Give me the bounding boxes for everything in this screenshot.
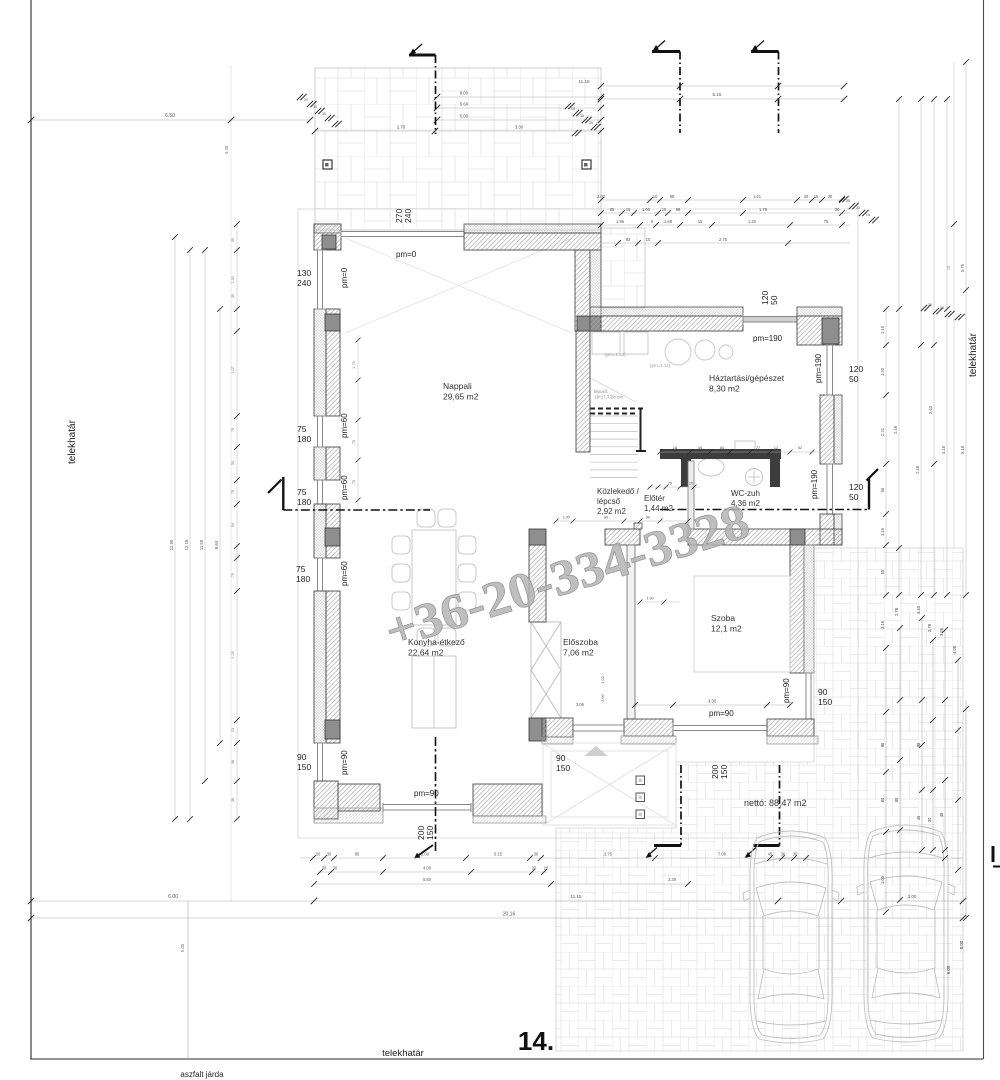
- column middle wall: [790, 529, 805, 545]
- svg-text:1.30: 1.30: [562, 515, 570, 520]
- szoba south pier west: [624, 719, 673, 736]
- kitchen hall wall: [529, 545, 546, 622]
- svg-text:30: 30: [231, 238, 235, 242]
- terrace post right: [582, 160, 591, 169]
- svg-text:98: 98: [916, 742, 921, 747]
- dimension cluster northeast pier: [921, 303, 965, 320]
- wall top-left pier: [314, 224, 341, 250]
- svg-text:10: 10: [662, 207, 667, 212]
- window 120/50 north: [743, 313, 797, 325]
- dimension row wc counter: [658, 446, 821, 455]
- svg-text:30: 30: [313, 105, 317, 109]
- svg-text:1,44 m2: 1,44 m2: [644, 504, 673, 513]
- svg-text:1.30: 1.30: [880, 367, 885, 376]
- svg-text:telekhatár: telekhatár: [382, 1048, 424, 1059]
- door jamb middle wall: [634, 523, 642, 529]
- kitchen hall wall column top: [529, 529, 546, 545]
- svg-text:Közlekedő /: Közlekedő /: [597, 487, 640, 496]
- svg-text:aszfalt járda: aszfalt járda: [180, 1070, 224, 1079]
- label előszoba: [563, 637, 598, 658]
- svg-text:1.78: 1.78: [759, 207, 768, 212]
- label 90/150 porch: [556, 753, 570, 773]
- label 90/150 west: [297, 752, 311, 772]
- dimension row below house y872: [317, 866, 549, 875]
- svg-text:3.30: 3.30: [224, 145, 229, 154]
- svg-text:20: 20: [304, 98, 308, 102]
- svg-text:15: 15: [866, 213, 870, 217]
- svg-text:30: 30: [846, 199, 850, 203]
- dimension cluster terrace top-right: [565, 103, 601, 136]
- svg-text:20: 20: [544, 866, 549, 871]
- west wall pier D: [314, 504, 326, 558]
- dimension line far right 8.00 6.00: [946, 700, 969, 974]
- dimension chains right side upper: [880, 59, 969, 598]
- paved driveway (basket-weave) right: [556, 548, 963, 1051]
- edge marker bottom right: [993, 846, 1000, 867]
- svg-text:49: 49: [698, 446, 702, 450]
- svg-text:75: 75: [231, 573, 235, 577]
- svg-text:2.00: 2.00: [600, 693, 605, 701]
- label szoba: [711, 613, 742, 634]
- svg-text:80: 80: [894, 797, 899, 802]
- svg-text:3.40: 3.40: [916, 605, 921, 614]
- svg-text:2,92 m2: 2,92 m2: [597, 507, 626, 516]
- nappali ceiling diagonals: [345, 238, 572, 333]
- svg-text:150: 150: [556, 763, 570, 773]
- window 90/150 szoba east: [804, 673, 813, 719]
- svg-text:4.00: 4.00: [423, 866, 432, 871]
- svg-text:1.96: 1.96: [616, 219, 625, 224]
- section marker A bottom: [414, 737, 436, 859]
- footing elotér pier: [542, 737, 573, 744]
- east wall segment 2 insulation: [834, 514, 842, 545]
- svg-text:11.59: 11.59: [199, 539, 204, 550]
- dimension top 11.15 and 5.15: [578, 79, 847, 102]
- svg-text:Előszoba: Előszoba: [563, 637, 598, 647]
- dimension row elöszoba: [600, 596, 680, 702]
- svg-text:50: 50: [769, 295, 779, 305]
- svg-text:5.00: 5.00: [460, 114, 469, 119]
- svg-text:pm=90: pm=90: [340, 750, 349, 775]
- dimension top-left 6.50: [28, 113, 313, 123]
- svg-text:10: 10: [646, 237, 651, 242]
- west wall pier B: [314, 309, 326, 416]
- svg-text:75: 75: [231, 428, 235, 432]
- svg-text:30: 30: [580, 114, 584, 118]
- watermark phone number: [378, 492, 755, 659]
- svg-text:pm=90: pm=90: [782, 678, 791, 703]
- svg-text:120: 120: [849, 364, 863, 374]
- svg-text:pm=190: pm=190: [753, 334, 783, 343]
- svg-text:pm=190: pm=190: [810, 469, 819, 499]
- svg-text:54: 54: [231, 523, 235, 527]
- svg-text:75: 75: [352, 440, 356, 444]
- dimension cluster terrace top-left: [297, 94, 342, 127]
- svg-text:1.41: 1.41: [753, 194, 762, 199]
- nappali east wall: [575, 250, 590, 331]
- svg-text:30: 30: [322, 112, 326, 116]
- svg-text:4.08: 4.08: [952, 645, 957, 654]
- svg-text:pm=60: pm=60: [340, 413, 349, 438]
- svg-text:pm=0: pm=0: [340, 267, 349, 288]
- svg-text:240: 240: [403, 209, 413, 223]
- svg-text:pm=90: pm=90: [414, 789, 439, 798]
- column west D: [325, 528, 340, 546]
- car right: [857, 825, 955, 1042]
- svg-text:7.00: 7.00: [718, 852, 727, 857]
- svg-text:3.78: 3.78: [927, 623, 932, 632]
- svg-text:telekhatár: telekhatár: [968, 332, 979, 377]
- kitchen island: [412, 656, 456, 728]
- szoba west partition: [627, 545, 635, 719]
- svg-text:3.06: 3.06: [576, 702, 585, 707]
- svg-text:14.: 14.: [518, 1026, 554, 1056]
- svg-text:8.00: 8.00: [959, 940, 964, 949]
- svg-text:55: 55: [880, 487, 885, 492]
- svg-text:2.31: 2.31: [880, 427, 885, 436]
- svg-text:5.60: 5.60: [460, 102, 469, 107]
- svg-text:nettó: 88,47 m2: nettó: 88,47 m2: [744, 798, 807, 808]
- label közlekedő: [597, 487, 640, 516]
- dimension vertical line x231: [224, 65, 234, 901]
- svg-text:30: 30: [856, 206, 860, 210]
- svg-text:1.88: 1.88: [664, 219, 673, 224]
- svg-text:30: 30: [322, 866, 327, 871]
- svg-text:55: 55: [880, 569, 885, 574]
- svg-text:98: 98: [670, 194, 675, 199]
- dimension row below house y858: [300, 852, 963, 861]
- svg-text:120: 120: [849, 482, 863, 492]
- porch slab outline: [543, 743, 676, 825]
- dimension mini chain inside west wall: [352, 335, 361, 510]
- north glass wall pm=0: [341, 230, 464, 238]
- section marker C bottom: [745, 765, 780, 858]
- svg-text:1.00: 1.00: [642, 207, 651, 212]
- szoba east wall insulation: [804, 545, 814, 673]
- svg-text:10: 10: [689, 482, 693, 486]
- svg-text:lépcső: lépcső: [597, 497, 621, 506]
- svg-text:11.15: 11.15: [578, 79, 590, 84]
- svg-text:(pm=1.53): (pm=1.53): [605, 352, 626, 357]
- elotér south pier: [542, 718, 573, 737]
- svg-text:2.78: 2.78: [894, 607, 899, 616]
- svg-text:5.15: 5.15: [713, 92, 722, 97]
- label háztartási: [709, 373, 785, 394]
- svg-text:3.30: 3.30: [708, 699, 717, 704]
- section marker B top: [652, 41, 680, 134]
- svg-text:10: 10: [571, 107, 575, 111]
- svg-text:20: 20: [316, 852, 321, 857]
- svg-text:1.90: 1.90: [646, 596, 654, 601]
- column west B: [325, 314, 340, 331]
- svg-text:99: 99: [676, 207, 681, 212]
- window 75/180 west middle: [315, 480, 326, 504]
- svg-text:18*17,7/28 cm: 18*17,7/28 cm: [594, 395, 623, 400]
- southwest corner pier: [314, 781, 338, 819]
- nappali east wall insulation: [590, 250, 601, 331]
- property boundary bottom: [30, 1058, 983, 1060]
- szoba east wall: [790, 545, 804, 673]
- svg-text:20,16: 20,16: [503, 912, 516, 918]
- window 130/240 west: [315, 250, 326, 309]
- svg-text:5.75: 5.75: [960, 263, 965, 272]
- svg-text:lépcső:: lépcső:: [594, 389, 608, 394]
- dimension sidewalk 5.00: [180, 901, 188, 1059]
- roof eaves outline: [298, 209, 858, 838]
- label 75/180 middle: [297, 487, 311, 507]
- dimension terrace inner rows: [434, 91, 604, 124]
- svg-text:45: 45: [916, 815, 921, 820]
- northeast pier insulation: [797, 307, 842, 316]
- svg-text:90: 90: [556, 753, 566, 763]
- car left: [743, 831, 839, 1043]
- svg-text:20: 20: [589, 121, 593, 125]
- svg-text:7,06 m2: 7,06 m2: [563, 648, 594, 658]
- column northeast: [822, 318, 839, 344]
- svg-text:Háztartási/gépészet: Háztartási/gépészet: [709, 373, 785, 383]
- dimension chain left wall: [231, 221, 240, 822]
- footing south kitchen: [473, 816, 546, 823]
- column west E: [325, 720, 340, 739]
- svg-text:Előtér: Előtér: [644, 494, 665, 503]
- svg-text:3.30: 3.30: [668, 877, 677, 882]
- svg-text:Szoba: Szoba: [711, 613, 735, 623]
- svg-text:1.15: 1.15: [880, 325, 885, 334]
- svg-text:30: 30: [327, 852, 332, 857]
- svg-text:12,1 m2: 12,1 m2: [711, 624, 742, 634]
- label nappali: [443, 381, 479, 402]
- south kitchen pier: [473, 784, 542, 816]
- svg-text:3.30: 3.30: [515, 125, 524, 130]
- svg-text:1.75: 1.75: [352, 361, 356, 368]
- svg-text:75: 75: [297, 487, 307, 497]
- svg-text:45: 45: [768, 852, 773, 857]
- svg-text:20: 20: [804, 194, 809, 199]
- svg-text:38: 38: [231, 798, 235, 802]
- svg-text:75: 75: [231, 490, 235, 494]
- svg-text:15: 15: [626, 207, 631, 212]
- svg-text:1.07: 1.07: [231, 366, 235, 373]
- svg-text:1.15: 1.15: [880, 527, 885, 536]
- window 120/50 east lower: [825, 464, 835, 514]
- svg-text:180: 180: [297, 434, 311, 444]
- svg-text:30: 30: [927, 817, 932, 822]
- svg-text:30: 30: [534, 852, 539, 857]
- stair west wall: [576, 331, 590, 452]
- dimension chains left side: [169, 234, 223, 822]
- porch entrance triangle: [584, 746, 608, 756]
- window 75/180 west upper: [315, 416, 326, 447]
- footing szoba south west: [621, 736, 676, 744]
- svg-text:8.84: 8.84: [214, 540, 219, 549]
- northeast pier: [797, 316, 842, 345]
- dimension row szoba width: [576, 699, 793, 708]
- north wall mechanical room: [590, 316, 743, 331]
- dimension cluster right of terrace 30-30: [839, 196, 879, 223]
- column top-left: [322, 235, 336, 249]
- svg-text:2.00: 2.00: [597, 194, 606, 199]
- footing southwest: [314, 808, 383, 823]
- svg-text:240: 240: [297, 278, 311, 288]
- svg-text:85: 85: [610, 207, 615, 212]
- entry door: [573, 725, 624, 731]
- wc partition wall: [688, 461, 694, 529]
- footing szoba south east: [767, 736, 818, 744]
- svg-text:98: 98: [880, 742, 885, 747]
- staircase railing: [590, 409, 646, 453]
- window 90/150 west: [315, 743, 326, 781]
- svg-text:5.80: 5.80: [423, 877, 432, 882]
- svg-text:8.00: 8.00: [460, 91, 469, 96]
- svg-text:30: 30: [532, 866, 537, 871]
- svg-text:1.05: 1.05: [880, 875, 885, 884]
- svg-text:2.70: 2.70: [397, 125, 406, 130]
- svg-text:48: 48: [939, 812, 944, 817]
- svg-text:77: 77: [756, 446, 760, 450]
- svg-text:180: 180: [296, 574, 310, 584]
- svg-text:telekhatár: telekhatár: [67, 419, 78, 464]
- middle wall east piece: [688, 529, 842, 545]
- dining table and chairs: [392, 509, 476, 646]
- svg-text:15: 15: [698, 219, 703, 224]
- svg-text:5.15: 5.15: [494, 852, 503, 857]
- svg-text:29,65 m2: 29,65 m2: [443, 392, 479, 402]
- svg-text:30: 30: [928, 303, 932, 307]
- south wall kitchen step: [338, 784, 380, 811]
- svg-text:7: 7: [682, 482, 684, 486]
- svg-text:5.18: 5.18: [960, 445, 965, 454]
- svg-text:12.18: 12.18: [184, 539, 189, 550]
- svg-text:pm=90: pm=90: [709, 709, 734, 718]
- label nettó area: [744, 798, 807, 808]
- label 200/150 south: [416, 826, 435, 840]
- WC and shower fixtures: [698, 441, 763, 486]
- label 120/50 north rotated: [760, 291, 779, 305]
- label 120/50 east lower: [849, 482, 863, 502]
- svg-text:50: 50: [849, 374, 859, 384]
- label 120/50 east upper: [849, 364, 863, 384]
- window 120/50 east upper: [825, 345, 835, 395]
- svg-text:11.15: 11.15: [570, 894, 582, 899]
- section marker A top: [409, 44, 436, 134]
- svg-text:80: 80: [880, 797, 885, 802]
- svg-text:8,30 m2: 8,30 m2: [709, 384, 740, 394]
- staircase treads: [590, 378, 638, 478]
- svg-text:30: 30: [828, 194, 833, 199]
- dimension terrace row: [312, 125, 604, 135]
- east wall segment 1: [820, 395, 834, 464]
- svg-text:6.50: 6.50: [165, 113, 175, 119]
- svg-text:2.48: 2.48: [915, 465, 920, 474]
- window 90/150 szoba south: [673, 723, 767, 733]
- svg-text:1.00: 1.00: [600, 675, 605, 683]
- dimension long verticals top right: [947, 62, 957, 548]
- svg-text:pm=60: pm=60: [340, 475, 349, 500]
- paved terrace (basket-weave) top: [315, 68, 645, 308]
- svg-text:10: 10: [653, 194, 658, 199]
- west wall pier E: [314, 591, 326, 743]
- section marker C top: [751, 41, 779, 134]
- section line horizontal left flag: [268, 477, 430, 510]
- svg-text:5.00: 5.00: [180, 943, 185, 952]
- dimension bottom 6.00 11.15 3.00 line: [28, 894, 966, 904]
- svg-text:6.00: 6.00: [168, 894, 178, 900]
- svg-text:15: 15: [814, 194, 819, 199]
- svg-text:75: 75: [668, 482, 672, 486]
- svg-text:180: 180: [297, 497, 311, 507]
- porch columns: [636, 776, 645, 819]
- svg-text:38: 38: [231, 760, 235, 764]
- window 200/150 south kitchen: [383, 803, 471, 812]
- kitchen counter table: [660, 449, 781, 487]
- svg-text:130: 130: [297, 268, 311, 278]
- svg-text:150: 150: [425, 826, 435, 840]
- svg-text:1.30: 1.30: [231, 276, 235, 283]
- svg-text:84: 84: [720, 446, 724, 450]
- svg-text:30: 30: [333, 866, 338, 871]
- svg-text:pm=60: pm=60: [340, 561, 349, 586]
- svg-text:85: 85: [355, 852, 360, 857]
- middle wall west piece: [605, 529, 640, 545]
- svg-text:12: 12: [774, 446, 778, 450]
- svg-text:50: 50: [849, 492, 859, 502]
- svg-text:33: 33: [231, 461, 235, 465]
- svg-text:2.75: 2.75: [604, 852, 613, 857]
- svg-text:6.00: 6.00: [946, 965, 951, 974]
- svg-text:75: 75: [296, 564, 306, 574]
- svg-text:90: 90: [818, 687, 828, 697]
- svg-text:pm=190: pm=190: [814, 353, 823, 383]
- label 130/240: [297, 268, 311, 288]
- label wc-zuh: [731, 489, 760, 508]
- svg-text:3.65: 3.65: [939, 627, 944, 636]
- svg-text:18: 18: [673, 446, 677, 450]
- szoba bed outline: [694, 576, 790, 672]
- svg-text:pm=0: pm=0: [396, 250, 417, 259]
- svg-text:30: 30: [781, 852, 786, 857]
- svg-text:75: 75: [824, 219, 829, 224]
- svg-text:75: 75: [352, 480, 356, 484]
- section marker B bottom: [646, 765, 682, 858]
- svg-text:150: 150: [818, 697, 832, 707]
- column nappali east: [577, 316, 601, 331]
- svg-text:150: 150: [297, 762, 311, 772]
- dimension row below house y884: [311, 877, 691, 887]
- mechanical room appliances: [592, 332, 733, 365]
- label 90/150 szoba: [818, 687, 832, 707]
- svg-text:23: 23: [231, 728, 235, 732]
- svg-text:62: 62: [798, 446, 802, 450]
- svg-text:2.00: 2.00: [421, 852, 430, 857]
- north wall insulation: [464, 224, 601, 233]
- east wall segment 1 insulation: [834, 395, 842, 464]
- west wall pier C: [314, 447, 326, 480]
- svg-text:15: 15: [947, 266, 951, 270]
- svg-text:150: 150: [719, 765, 729, 779]
- svg-text:30: 30: [835, 207, 840, 212]
- svg-text:1.29: 1.29: [231, 651, 235, 658]
- label 270/240 terrace door: [394, 209, 413, 223]
- label 75/180 lower: [296, 564, 310, 584]
- svg-text:(pm=1.11): (pm=1.11): [650, 363, 671, 368]
- north wall thick: [464, 233, 601, 250]
- svg-text:12.59: 12.59: [169, 539, 174, 550]
- svg-text:1.20: 1.20: [748, 219, 757, 224]
- label 75/180 upper: [297, 424, 311, 444]
- dimension row entry: [554, 515, 691, 524]
- svg-text:Nappali: Nappali: [443, 381, 472, 391]
- terrace post left: [323, 160, 332, 169]
